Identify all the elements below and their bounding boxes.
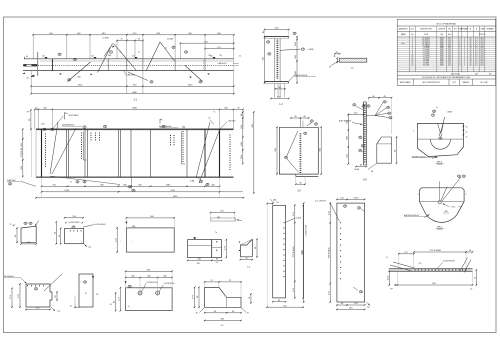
- svg-text:15: 15: [412, 65, 414, 67]
- beam second dim segments left: [117, 40, 143, 42]
- svg-text:TYP B 38x5: TYP B 38x5: [293, 246, 295, 258]
- svg-text:2: 2: [464, 41, 465, 43]
- svg-text:240: 240: [91, 56, 94, 58]
- svg-text:3440: 3440: [440, 43, 444, 45]
- girder leader from bottom left: [50, 176, 120, 185]
- detail D2 plate with holes: [65, 228, 84, 243]
- svg-text:3440: 3440: [440, 53, 444, 55]
- svg-text:50: 50: [470, 61, 472, 63]
- svg-text:5-5: 5-5: [363, 179, 367, 182]
- svg-text:50: 50: [470, 47, 472, 49]
- section top marks: [263, 31, 265, 33]
- svg-text:25.2: 25.2: [448, 53, 451, 55]
- hatched plate dims: [336, 58, 338, 62]
- svg-text:x B438: x B438: [308, 49, 314, 51]
- svg-text:3440: 3440: [440, 59, 444, 61]
- detail 5-5 leader fan: [375, 103, 383, 116]
- svg-text:PL 90x8: PL 90x8: [423, 59, 429, 61]
- beam extension verticals: [32, 35, 34, 59]
- svg-text:1: 1: [459, 41, 460, 43]
- svg-text:2: 2: [464, 63, 465, 65]
- beam second dim segments right: [180, 42, 233, 44]
- svg-text:2x Ø18 HOLE: 2x Ø18 HOLE: [164, 283, 175, 285]
- svg-text:2x Ø18 HOLES: 2x Ø18 HOLES: [95, 224, 106, 226]
- detail MK-4 leader: [442, 117, 445, 133]
- svg-text:4 1: 4 1: [85, 293, 87, 295]
- detail E2 tall plate: [337, 203, 365, 302]
- beam top flange line: [24, 58, 233, 60]
- svg-text:3-3: 3-3: [297, 190, 301, 193]
- beam bottom dim line 1: [31, 85, 234, 87]
- svg-text:4x Ø18 HOLES: 4x Ø18 HOLES: [69, 222, 80, 224]
- svg-text:8: 8: [412, 51, 413, 53]
- svg-text:1: 1: [412, 38, 413, 40]
- girder hidden bolt columns: [45, 134, 46, 135]
- svg-text:50: 50: [470, 51, 472, 53]
- detail E2 bottom-right balloon: [359, 290, 362, 293]
- svg-text:30: 30: [466, 127, 468, 129]
- svg-text:4.2: 4.2: [475, 53, 477, 55]
- svg-text:25.2: 25.2: [448, 55, 451, 57]
- svg-text:1: 1: [459, 40, 460, 42]
- svg-text:ASSY MARK: ASSY MARK: [400, 81, 411, 84]
- section web extensions below: [274, 83, 276, 97]
- detail E3 bottom dim: [394, 284, 398, 286]
- detail MK-5 V stem: [439, 181, 441, 200]
- svg-text:1B: 1B: [77, 181, 79, 183]
- girder left end plate: [41, 129, 43, 177]
- svg-text:2B: 2B: [219, 55, 222, 57]
- svg-text:50: 50: [470, 38, 472, 40]
- svg-text:PL 100x8: PL 100x8: [423, 55, 430, 57]
- section bottom flange: [265, 81, 289, 83]
- svg-text:2: 2: [465, 194, 466, 196]
- svg-text:PL 250x12: PL 250x12: [422, 40, 430, 42]
- svg-text:2: 2: [464, 47, 465, 49]
- svg-text:50.4: 50.4: [480, 40, 483, 42]
- svg-text:1: 1: [459, 51, 460, 53]
- svg-text:240: 240: [132, 56, 135, 58]
- gusset right dim: [396, 137, 398, 163]
- svg-text:25.2: 25.2: [448, 57, 451, 59]
- detail D1 left dim: [16, 228, 18, 242]
- svg-text:(2B): (2B): [217, 217, 221, 219]
- svg-text:WT(KG): WT(KG): [479, 34, 486, 36]
- svg-text:50.4: 50.4: [480, 61, 483, 63]
- svg-text:2: 2: [464, 55, 465, 57]
- svg-text:1: 1: [459, 59, 460, 61]
- svg-text:4B: 4B: [74, 59, 76, 61]
- svg-text:2x Ø18 HOLES: 2x Ø18 HOLES: [443, 260, 456, 262]
- svg-text:330: 330: [197, 263, 200, 265]
- svg-text:B: B: [84, 127, 85, 129]
- svg-text:2B: 2B: [51, 129, 53, 131]
- detail D6 stepped plate: [26, 284, 52, 307]
- svg-text:1B: 1B: [463, 176, 465, 178]
- svg-text:Tn: Tn: [213, 112, 215, 114]
- svg-text:9: 9: [412, 53, 413, 55]
- svg-text:5: 5: [412, 45, 413, 47]
- section top flange: [265, 36, 289, 38]
- girder right detail dim: [211, 212, 235, 214]
- girder weld flag: [64, 113, 66, 120]
- svg-text:3440: 3440: [440, 40, 444, 42]
- detail D1 small plate: [21, 226, 36, 242]
- svg-text:1x Ø18: 1x Ø18: [296, 218, 302, 220]
- svg-text:SIZE: SIZE: [424, 34, 429, 36]
- svg-text:3440: 3440: [440, 45, 444, 47]
- svg-text:8B: 8B: [285, 157, 287, 159]
- svg-text:1: 1: [459, 61, 460, 63]
- svg-text:1: 1: [459, 65, 460, 67]
- svg-text:12: 12: [333, 56, 335, 58]
- girder right end plate: [219, 129, 221, 177]
- svg-text:50: 50: [470, 40, 472, 42]
- detail D3 wide plate: [126, 228, 174, 252]
- girder bottom dim 2: [42, 191, 220, 193]
- svg-text:2B: 2B: [200, 81, 202, 83]
- svg-text:QTY: QTY: [452, 82, 456, 84]
- svg-text:1: 1: [459, 38, 460, 40]
- detail E3 right end diagonals: [460, 258, 468, 272]
- svg-text:PL 80x6: PL 80x6: [423, 63, 429, 65]
- bill of material table: [397, 19, 495, 85]
- detail 3-3 leaders: [287, 131, 298, 157]
- svg-text:(KG): (KG): [448, 34, 452, 36]
- svg-text:QTY: QTY: [411, 29, 415, 31]
- detail E1 tall plate: [273, 205, 286, 298]
- svg-text:25.2: 25.2: [448, 41, 451, 43]
- section right dim: [296, 37, 298, 83]
- svg-text:PL 120x8: PL 120x8: [423, 51, 430, 53]
- detail E3 bolt row: [415, 270, 416, 271]
- svg-text:45°: 45°: [247, 313, 250, 315]
- svg-text:50.4: 50.4: [480, 59, 483, 61]
- svg-text:50: 50: [470, 43, 472, 45]
- svg-text:4B: 4B: [133, 190, 135, 192]
- svg-text:4.2: 4.2: [475, 49, 477, 51]
- svg-text:3440: 3440: [440, 57, 444, 59]
- detail 3-3 bottom dim: [296, 183, 305, 185]
- detail E3 left end diagonals: [390, 265, 413, 271]
- beam left end arrows: [22, 72, 24, 74]
- svg-text:4.2: 4.2: [475, 38, 477, 40]
- svg-text:2: 2: [464, 53, 465, 55]
- svg-text:PL 200x10: PL 200x10: [422, 41, 430, 43]
- detail MK-4 semicircle: [430, 139, 450, 149]
- svg-text:1B: 1B: [302, 49, 304, 51]
- detail D4 plate with side strip: [188, 240, 212, 258]
- svg-text:WT: WT: [448, 29, 451, 31]
- svg-text:(2B): (2B): [108, 55, 112, 57]
- detail 1-4 small plate: [240, 239, 252, 256]
- svg-text:2B: 2B: [267, 42, 269, 44]
- svg-text:4B: 4B: [9, 183, 11, 185]
- beam balloons: [58, 53, 61, 56]
- beam centerline dotted: [29, 64, 239, 66]
- svg-text:25.2: 25.2: [448, 63, 451, 65]
- detail 3-3 right dim: [320, 127, 322, 174]
- svg-text:4.2: 4.2: [475, 65, 477, 67]
- svg-text:4.2: 4.2: [475, 43, 477, 45]
- svg-text:2B: 2B: [129, 286, 131, 288]
- svg-text:4B: 4B: [68, 79, 70, 81]
- svg-text:25.2: 25.2: [448, 43, 451, 45]
- svg-text:2B: 2B: [35, 288, 37, 290]
- svg-text:2x: 2x: [138, 52, 140, 54]
- svg-text:4.2: 4.2: [475, 63, 477, 65]
- svg-text:PL 100x8: PL 100x8: [423, 57, 430, 59]
- svg-text:50: 50: [470, 45, 472, 47]
- gusset bottom leader: [368, 163, 377, 169]
- svg-text:2B: 2B: [151, 81, 153, 83]
- svg-text:2B: 2B: [185, 52, 187, 54]
- beam leader tent right: [147, 42, 161, 70]
- svg-text:x AB 38x5: x AB 38x5: [228, 120, 236, 123]
- detail MK-4 mid line: [417, 138, 463, 140]
- svg-text:25.2: 25.2: [448, 65, 451, 67]
- svg-text:240: 240: [210, 56, 213, 58]
- svg-text:TYP: TYP: [458, 207, 461, 209]
- svg-text:WT: WT: [489, 74, 492, 76]
- svg-text:x B438: x B438: [447, 112, 452, 114]
- detail MK-4 outline: [417, 123, 463, 156]
- svg-text:4: 4: [412, 43, 413, 45]
- svg-text:B: B: [476, 29, 478, 31]
- beam leader below left: [68, 62, 91, 82]
- svg-text:50.4: 50.4: [480, 45, 483, 47]
- detail D8 plate two holes: [126, 288, 173, 311]
- svg-text:(2B): (2B): [273, 200, 277, 202]
- beam leader below center: [128, 72, 148, 81]
- girder mid weld flag: [159, 119, 161, 124]
- svg-text:3B: 3B: [458, 176, 460, 178]
- svg-text:2B: 2B: [294, 33, 296, 35]
- svg-text:DESCRIPTION: DESCRIPTION: [420, 29, 432, 31]
- detail 3-3 stem above: [299, 118, 301, 127]
- girder bottom dim 1: [42, 185, 220, 187]
- svg-text:2x Ø18 HOLE: 2x Ø18 HOLE: [147, 282, 158, 284]
- svg-text:50.4: 50.4: [480, 53, 483, 55]
- table rows: [397, 39, 495, 70]
- svg-text:45°: 45°: [470, 289, 473, 291]
- svg-text:2: 2: [464, 40, 465, 42]
- svg-text:PL 150x8: PL 150x8: [423, 47, 430, 49]
- svg-text:2x: 2x: [436, 107, 438, 109]
- detail 3-3 bottom flange strip: [296, 176, 319, 178]
- svg-text:TYP: TYP: [367, 307, 370, 309]
- svg-text:3440: 3440: [440, 47, 444, 49]
- svg-text:1B: 1B: [358, 208, 360, 210]
- svg-text:50.4: 50.4: [480, 55, 483, 57]
- svg-text:4B: 4B: [388, 113, 390, 115]
- svg-text:4.2: 4.2: [475, 51, 477, 53]
- svg-text:1: 1: [459, 45, 460, 47]
- svg-text:PL 120x8: PL 120x8: [423, 53, 430, 55]
- svg-text:4.2: 4.2: [475, 61, 477, 63]
- girder bottom extension verticals: [41, 177, 43, 198]
- svg-text:1B: 1B: [104, 126, 106, 128]
- girder top flange: [36, 128, 234, 130]
- svg-text:25.2: 25.2: [448, 61, 451, 63]
- detail 5-5 bottom dim: [356, 166, 366, 168]
- svg-text:AnB7 38x269x8: AnB7 38x269x8: [339, 120, 351, 123]
- section bottom dims: [275, 88, 285, 90]
- girder J stiffener lines: [84, 132, 87, 161]
- svg-text:2B: 2B: [360, 291, 362, 293]
- svg-text:2x B38: 2x B38: [102, 38, 109, 40]
- svg-text:2x: 2x: [386, 257, 388, 259]
- svg-text:PL 180x8: PL 180x8: [423, 45, 430, 47]
- svg-text:(75): (75): [419, 263, 422, 265]
- svg-text:No: No: [411, 34, 413, 36]
- detail E3 long bar: [389, 268, 473, 270]
- detail 5-5 left dim: [347, 115, 349, 164]
- svg-text:(M): (M): [440, 34, 443, 36]
- detail MK-5 center circle: [438, 201, 441, 204]
- svg-text:50: 50: [470, 63, 472, 65]
- svg-text:PL 90x6: PL 90x6: [423, 61, 429, 63]
- svg-text:3440: 3440: [440, 65, 444, 67]
- svg-text:TOTAL: TOTAL: [479, 28, 484, 31]
- beam bottom line: [23, 70, 234, 72]
- svg-text:2B: 2B: [387, 107, 389, 109]
- svg-text:B: B: [362, 145, 363, 147]
- svg-text:2xB: 2xB: [41, 124, 45, 126]
- svg-text:2x: 2x: [70, 182, 72, 184]
- svg-text:SHOP WELD: SHOP WELD: [69, 115, 80, 117]
- svg-text:2B: 2B: [200, 181, 202, 183]
- svg-text:2x: 2x: [165, 48, 167, 50]
- svg-text:TYP B 4MM: TYP B 4MM: [429, 250, 440, 252]
- svg-text:25.2: 25.2: [448, 59, 451, 61]
- svg-text:3B: 3B: [390, 117, 392, 119]
- svg-text:13: 13: [412, 61, 414, 63]
- section leader: [280, 49, 301, 50]
- svg-text:7: 7: [412, 49, 413, 51]
- svg-text:25.2: 25.2: [448, 38, 451, 40]
- beam left end plate bar: [23, 64, 37, 66]
- svg-text:3440: 3440: [440, 51, 444, 53]
- section leader 2: [289, 76, 293, 81]
- girder leader X left: [50, 122, 58, 174]
- beam inner flange line: [40, 60, 234, 62]
- detail 3-3 top dim: [291, 117, 309, 119]
- small bar plan view: [211, 218, 236, 221]
- svg-text:Ø 14: Ø 14: [451, 207, 455, 209]
- svg-text:ASSEMBLY: ASSEMBLY: [399, 28, 409, 31]
- svg-text:MT: MT: [454, 29, 456, 31]
- beam leader tent left: [98, 44, 113, 73]
- svg-text:50.4: 50.4: [480, 57, 483, 59]
- svg-text:45°: 45°: [196, 313, 199, 315]
- svg-text:4.2: 4.2: [475, 47, 477, 49]
- svg-text:10: 10: [412, 55, 414, 57]
- svg-text:PL 250x12: PL 250x12: [422, 38, 430, 40]
- svg-text:2B: 2B: [268, 54, 270, 56]
- svg-text:2x: 2x: [120, 52, 122, 54]
- svg-text:1: 1: [459, 49, 460, 51]
- svg-text:50.4: 50.4: [480, 51, 483, 53]
- svg-text:2B: 2B: [304, 133, 306, 135]
- svg-text:50: 50: [470, 55, 472, 57]
- svg-text:1-5: 1-5: [221, 325, 225, 327]
- svg-text:2: 2: [464, 49, 465, 51]
- svg-text:TYP: TYP: [26, 112, 29, 114]
- section web lines: [274, 38, 276, 81]
- girder right vertical dims: [242, 112, 244, 164]
- detail 3-3 plate: [279, 127, 318, 174]
- svg-text:3440: 3440: [440, 38, 444, 40]
- beam left small dim: [31, 75, 33, 77]
- svg-text:50.4: 50.4: [480, 63, 483, 65]
- svg-text:25.2: 25.2: [448, 45, 451, 47]
- svg-text:50: 50: [470, 49, 472, 51]
- girder top dim extensions: [34, 109, 36, 129]
- svg-text:25.2: 25.2: [448, 51, 451, 53]
- svg-text:4 B: 4 B: [96, 294, 99, 296]
- girder leader X right: [196, 122, 210, 178]
- svg-text:PL 150x8: PL 150x8: [423, 49, 430, 51]
- svg-text:50: 50: [470, 59, 472, 61]
- girder left vertical dim: [22, 129, 24, 176]
- beam stiffener verticals: [107, 59, 109, 71]
- svg-text:50.4: 50.4: [480, 38, 483, 40]
- svg-text:14: 14: [412, 63, 414, 65]
- svg-text:4.2: 4.2: [475, 59, 477, 61]
- svg-text:1-6: 1-6: [215, 262, 218, 264]
- svg-text:TYP: TYP: [390, 289, 393, 291]
- svg-text:30: 30: [466, 137, 468, 139]
- svg-text:1: 1: [459, 47, 460, 49]
- svg-text:50.4: 50.4: [480, 65, 483, 67]
- svg-text:PL 75x6: PL 75x6: [423, 65, 429, 67]
- svg-text:4B: 4B: [315, 124, 317, 126]
- svg-text:1: 1: [459, 53, 460, 55]
- svg-text:1-4: 1-4: [247, 267, 251, 269]
- svg-text:4B: 4B: [344, 206, 346, 208]
- svg-text:2: 2: [464, 43, 465, 45]
- svg-text:30: 30: [466, 132, 468, 134]
- svg-text:4.2: 4.2: [475, 40, 477, 42]
- section top dim: [265, 29, 289, 31]
- detail 5-5 narrow plate: [362, 102, 364, 165]
- detail 5-5 top dim: [348, 114, 363, 116]
- svg-text:REMARK: REMARK: [487, 28, 495, 31]
- beam bottom extension verticals: [30, 71, 32, 94]
- svg-text:1B: 1B: [129, 186, 131, 188]
- svg-text:6: 6: [412, 47, 413, 49]
- svg-text:FILL HOLES 76 - SETTS AND FOR: FILL HOLES 76 - SETTS AND FOR ONE ASSEMB…: [422, 76, 471, 79]
- svg-text:x AB 38x5: x AB 38x5: [127, 74, 135, 77]
- svg-text:2B: 2B: [59, 54, 61, 56]
- svg-text:3B: 3B: [433, 111, 435, 113]
- svg-text:BILL OF MATERIAL: BILL OF MATERIAL: [437, 22, 457, 25]
- svg-text:↓: ↓: [132, 240, 133, 243]
- svg-text:2: 2: [464, 61, 465, 63]
- svg-text:25.2: 25.2: [448, 40, 451, 42]
- svg-text:4B: 4B: [440, 138, 442, 140]
- svg-text:2B: 2B: [84, 282, 86, 284]
- svg-text:1-1: 1-1: [279, 103, 283, 106]
- svg-text:40: 40: [26, 78, 29, 80]
- svg-text:Tn: Tn: [128, 306, 130, 308]
- detail 3-3 left dim: [276, 127, 278, 174]
- svg-text:50: 50: [470, 57, 472, 59]
- svg-text:Tn: Tn: [215, 232, 217, 234]
- svg-text:Tn: Tn: [208, 118, 210, 120]
- svg-text:TYP: TYP: [88, 247, 91, 249]
